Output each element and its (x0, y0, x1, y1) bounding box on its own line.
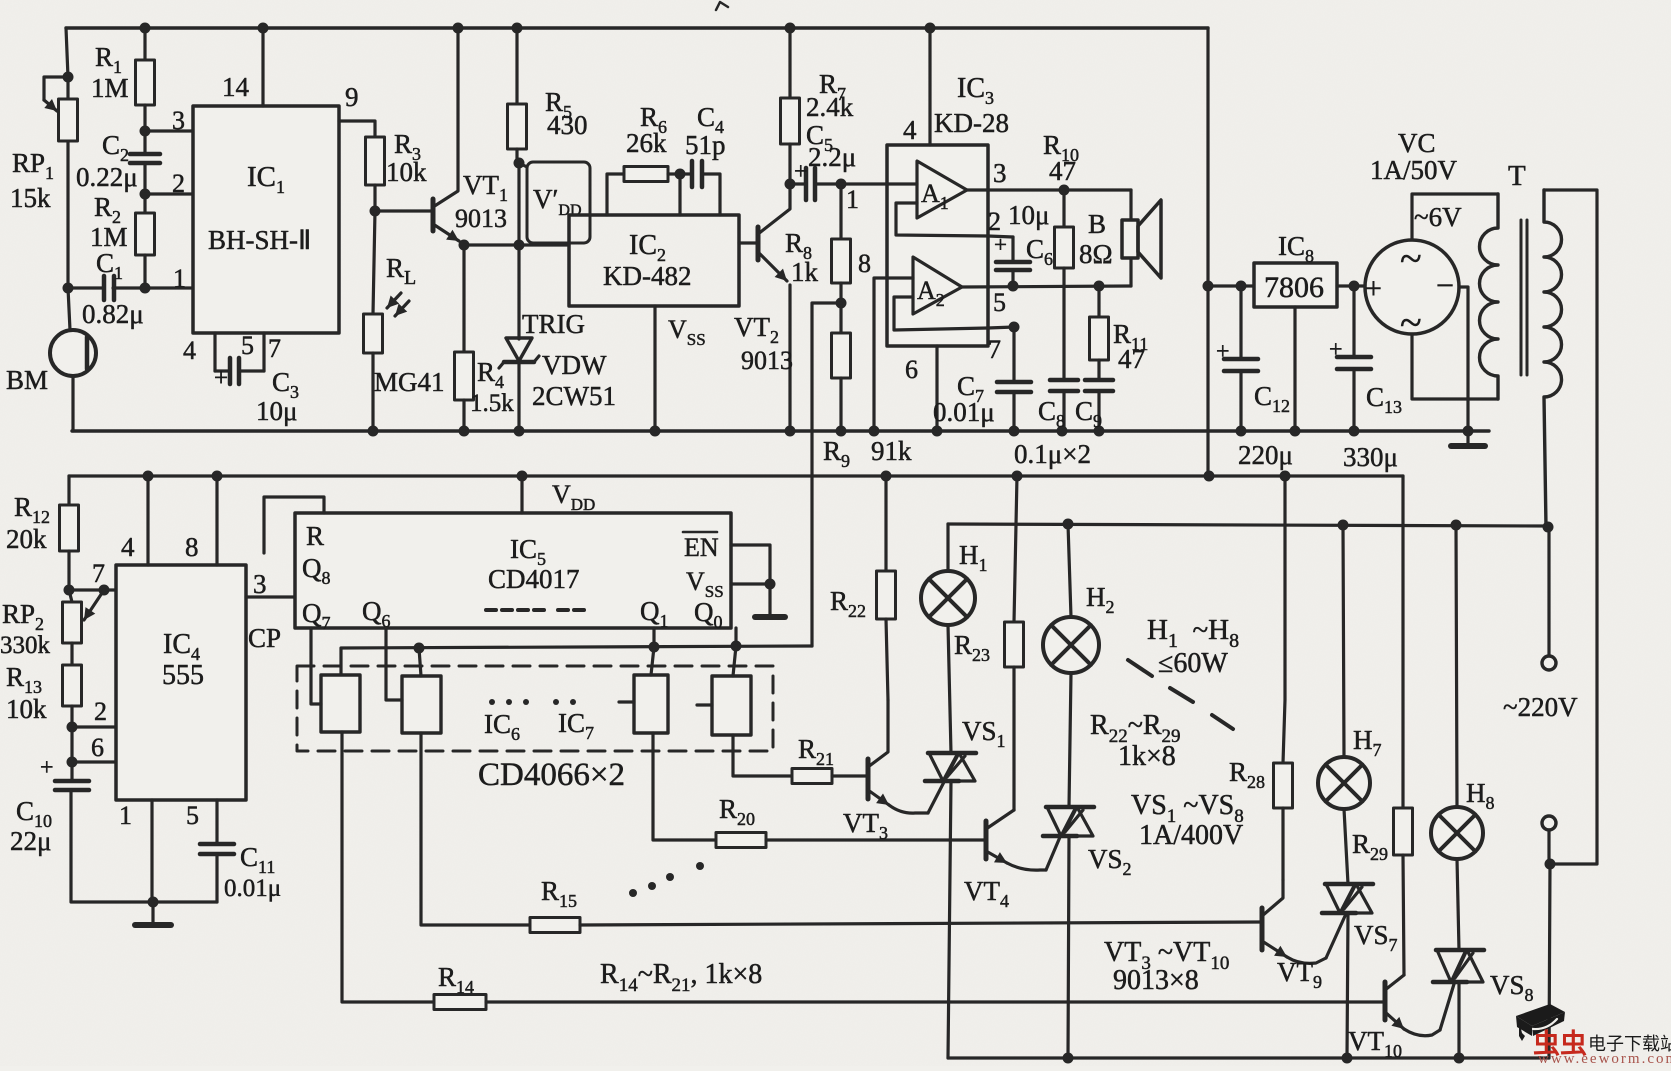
transformer T primary winding (1544, 190, 1562, 527)
svg-text:+: + (1216, 339, 1230, 365)
svg-text:6: 6 (905, 355, 918, 384)
wire: A2 feedback loop and pin 7 (894, 297, 1020, 364)
svg-text:+: + (994, 232, 1007, 257)
wire: IC2 Vss pin (655, 306, 706, 431)
capacitor C9 (1075, 380, 1113, 431)
svg-text:430: 430 (547, 110, 588, 140)
wire: A1 feedback loop and pin 2 (896, 203, 1013, 237)
svg-text:MG41: MG41 (374, 367, 445, 397)
resistor R6 (607, 102, 680, 215)
svg-text:6: 6 (91, 733, 104, 762)
regulator IC8 7806 (1254, 231, 1337, 431)
svg-text:7: 7 (988, 335, 1001, 364)
svg-text:4: 4 (903, 115, 917, 145)
svg-text:+: + (1365, 272, 1382, 305)
node pin2 of IC4 (67, 722, 78, 733)
wire: SW1 output to R14 (342, 732, 434, 1002)
svg-text:5: 5 (241, 331, 254, 360)
svg-text:2CW51: 2CW51 (532, 381, 616, 411)
svg-text:3: 3 (253, 569, 267, 599)
svg-text:22μ: 22μ (10, 826, 51, 856)
wire: pin 6 of IC4 (72, 727, 116, 762)
wire: ground bus (72, 429, 1489, 432)
wire: mains loop top edge (948, 519, 1554, 533)
zener diode VDW 2CW51 (499, 309, 616, 411)
node pin1 junction (140, 264, 187, 294)
svg-text:≤60W: ≤60W (1158, 648, 1228, 679)
svg-text:26k: 26k (626, 128, 667, 158)
wire: SW4 output to R21 (733, 735, 792, 776)
svg-text:8: 8 (858, 249, 871, 278)
resistor R20 (716, 794, 986, 848)
capacitor C10 22u (10, 755, 217, 902)
svg-text:9013×8: 9013×8 (1113, 965, 1199, 996)
resistor R28 (1229, 476, 1293, 880)
transistor VT2 9013 (734, 184, 793, 431)
capacitor C7 (933, 327, 1031, 431)
wire: low-voltage supply bus VDD2 (69, 474, 1403, 477)
wire: SW4 control stub (697, 703, 712, 706)
wire: IC5 reset pin hook (264, 497, 324, 553)
node pin3 junction (140, 126, 151, 137)
wire: bridge top to transformer secondary (1412, 194, 1498, 240)
capacitor C6 (988, 200, 1053, 292)
resistor R13 (6, 643, 82, 727)
svg-text:~220V: ~220V (1503, 692, 1578, 722)
wire: pin 14 of IC1 (222, 28, 263, 106)
resistor R29 (1352, 476, 1413, 975)
node R3 bottom (370, 206, 381, 217)
svg-text:BH-SH-Ⅱ: BH-SH-Ⅱ (208, 225, 311, 255)
svg-text:1k×8: 1k×8 (1118, 741, 1176, 772)
svg-text:8: 8 (185, 532, 199, 562)
net label VDD tag box (519, 162, 590, 243)
svg-text:R: R (306, 521, 324, 551)
svg-text:~: ~ (1400, 236, 1422, 281)
svg-text:51p: 51p (685, 130, 726, 160)
svg-text:+: + (214, 365, 228, 392)
scan mark top edge (716, 2, 728, 10)
resistor R7 (781, 28, 854, 184)
wire: Q0 output stub (734, 628, 737, 646)
node R12/RP2 pin7 (64, 585, 110, 596)
svg-text:CD4017: CD4017 (488, 564, 580, 594)
node R5 bottom VDD (514, 158, 525, 169)
dashes inside IC5 (486, 608, 584, 612)
svg-text:4: 4 (121, 532, 135, 562)
wire: IC5 EN pin (731, 545, 770, 584)
wire: primary top to mains right leg (1544, 190, 1597, 864)
svg-text:10k: 10k (386, 157, 427, 187)
wire: VT1 emitter node (461, 243, 569, 245)
bridge rectifier VC (1365, 128, 1459, 345)
microphone BM (6, 330, 96, 431)
svg-text:20k: 20k (6, 524, 47, 554)
svg-text:10μ: 10μ (256, 396, 297, 426)
node VT1 emitter (459, 240, 470, 251)
wire: pin 6 of IC3 to ground (905, 346, 937, 431)
svg-text:0.01μ: 0.01μ (224, 875, 281, 902)
svg-text:CP: CP (248, 623, 281, 653)
wire: Q6 to SW2 control (386, 628, 402, 700)
transistor VT1 9013 (433, 28, 508, 241)
resistor R8 (785, 184, 851, 303)
wire: pin 2 of IC4 (72, 697, 116, 727)
resistor R1 (91, 28, 155, 131)
node R6/C4 (675, 169, 686, 180)
op-amp IC2 KD-482 box (569, 215, 739, 306)
transistor VT9 (1262, 880, 1345, 992)
analog switch SW4 (712, 646, 751, 735)
wire: pin 2 of IC1 (145, 169, 193, 198)
svg-text:1A/400V: 1A/400V (1139, 820, 1243, 851)
wire: IC5 Vdd tap (522, 476, 595, 514)
wire: A2 input from pin 8 (887, 276, 913, 279)
capacitor C1 (68, 248, 193, 329)
triac VS2 (1043, 673, 1132, 1058)
ground symbol at bridge (1451, 431, 1485, 446)
dashed annotation leader (1128, 660, 1233, 729)
resistor R23 (954, 476, 1024, 810)
op-amp A1 (917, 161, 967, 218)
lamp H2 (1043, 524, 1115, 673)
svg-text:1.5k: 1.5k (470, 390, 514, 417)
capacitor C2 (76, 130, 160, 194)
transformer T core (1508, 160, 1527, 375)
svg-text:330μ: 330μ (1343, 442, 1398, 472)
svg-text:1: 1 (846, 185, 859, 214)
watermark eeworm (1516, 1004, 1671, 1067)
svg-text:8Ω: 8Ω (1079, 239, 1113, 269)
svg-text:+: + (40, 755, 54, 781)
dotted continuation marks (629, 862, 704, 897)
resistor R4 (455, 245, 515, 431)
svg-text:0.82μ: 0.82μ (82, 299, 144, 329)
wire: SW3 output to R20 (653, 733, 716, 840)
svg-text:10μ: 10μ (1008, 200, 1049, 230)
svg-text:5: 5 (186, 801, 199, 830)
wire: top supply bus (66, 26, 1208, 29)
svg-text:7806: 7806 (1264, 271, 1324, 304)
resistor R12 (6, 476, 79, 590)
label VT3-VT10 9013x8 (1104, 937, 1229, 996)
resistor R22 (830, 476, 896, 700)
svg-text:10k: 10k (6, 694, 47, 724)
analog switch box IC6 IC7 CD4066 dashed (297, 666, 773, 793)
svg-text:7: 7 (268, 334, 281, 363)
potentiometer RP1 (10, 77, 78, 213)
svg-text:T: T (1508, 160, 1526, 192)
speaker B 8ohm (1079, 190, 1161, 286)
wire: Q7 to SW1 control (311, 628, 321, 704)
svg-text:B: B (1088, 209, 1106, 239)
potentiometer RP2 330k (0, 590, 104, 659)
svg-text:www.eeworm.com: www.eeworm.com (1538, 1051, 1671, 1066)
svg-text:−: − (1436, 267, 1454, 303)
wire: pin 3 of IC4 to CP of IC5 (246, 569, 295, 653)
node C5 left (785, 179, 796, 190)
node: ground bus junctions (368, 426, 1474, 437)
capacitor C13 330u (1329, 281, 1402, 473)
svg-text:3: 3 (993, 158, 1007, 188)
svg-text:3: 3 (172, 106, 185, 135)
svg-text:9013: 9013 (741, 346, 793, 375)
svg-text:0.01μ: 0.01μ (933, 397, 995, 427)
wire: pin 7 of IC4 (69, 559, 116, 590)
svg-text:555: 555 (162, 660, 204, 691)
svg-text:~6V: ~6V (1414, 202, 1462, 232)
node pin2 junction (140, 189, 151, 200)
svg-text:14: 14 (222, 72, 250, 102)
node: top bus junctions (140, 23, 936, 34)
wire: pin 4 of IC3 (903, 28, 930, 145)
resistor R21 (792, 734, 868, 784)
wire: pin 4 of IC4 (121, 476, 148, 565)
label VS1-VS8 1A/400V (1131, 790, 1244, 851)
capacitor C5 (790, 120, 856, 200)
analog switch SW3 (634, 647, 668, 733)
svg-text:4: 4 (183, 336, 196, 365)
node R8/R9 (836, 298, 847, 309)
label R22-R29 1k x8 (1090, 710, 1181, 772)
svg-text:+: + (1329, 337, 1343, 363)
ground symbol at IC4 (135, 902, 171, 925)
svg-text:1: 1 (173, 264, 186, 293)
svg-text:330k: 330k (0, 632, 51, 659)
wire: bridge minus to ground (1459, 287, 1468, 431)
svg-text:EN: EN (684, 533, 719, 562)
svg-text:1A/50V: 1A/50V (1370, 155, 1458, 185)
svg-text:15k: 15k (10, 183, 51, 213)
transformer T secondary winding (1480, 194, 1499, 399)
wire: regulator output (1337, 284, 1365, 287)
resistor R2 (90, 192, 155, 288)
triac VS8 (1433, 859, 1534, 1058)
op-amp IC3 KD-28 box (887, 73, 1009, 346)
triac VS7 (1322, 809, 1398, 1058)
lamp H7 (1318, 525, 1382, 809)
svg-text:KD-482: KD-482 (603, 261, 692, 291)
wire: A2 output pin 5 (962, 286, 1131, 317)
svg-text:1k: 1k (791, 257, 819, 287)
wire: raw DC rail from top bus to regulator input (1203, 28, 1255, 476)
wire: node to A1 input (841, 182, 917, 185)
analog switch SW1 (321, 675, 360, 732)
svg-text:BM: BM (6, 365, 48, 395)
capacitor C8 (1038, 380, 1078, 431)
wire: SW3 control stub (619, 700, 634, 703)
wire: mains loop bottom edge (948, 1053, 1549, 1064)
svg-text:2.2μ: 2.2μ (808, 142, 856, 172)
wire: pin 9 of IC1 (339, 82, 375, 137)
wire: VDD column to zener (514, 163, 525, 431)
wire: pin 1 of IC4 (119, 800, 152, 902)
wire: A1 output pin 3 (967, 158, 1131, 190)
svg-text:2: 2 (94, 697, 107, 726)
svg-text:TRIG: TRIG (522, 309, 585, 339)
transistor VT4 (964, 810, 1060, 911)
svg-text:0.1μ×2: 0.1μ×2 (1014, 439, 1091, 469)
svg-text:220μ: 220μ (1238, 440, 1293, 470)
resistor R15 (530, 876, 1262, 933)
resistor R14 (434, 962, 1384, 1010)
op-amp A2 (913, 257, 962, 314)
wire: pin 3 of IC1 (145, 106, 193, 135)
wire: left rail (63, 28, 74, 330)
node ground of IC4 (148, 897, 159, 908)
wire: mains loop right edge with 220V terminals (1542, 527, 1556, 1058)
svg-text:1M: 1M (91, 73, 129, 103)
capacitor C3 on pins 4/5/7 (183, 331, 299, 426)
resistor R5 (508, 28, 588, 163)
svg-text:VC: VC (1398, 128, 1436, 158)
analog switch SW2 (402, 648, 441, 733)
svg-text:1: 1 (119, 801, 132, 830)
node: VDD2 bus junctions (143, 471, 1291, 482)
svg-text:5: 5 (993, 288, 1006, 317)
label H1-H8 60W (1147, 614, 1239, 679)
wire: bridge bottom to secondary bottom (1412, 334, 1498, 399)
wire: SW2 output to R15 (421, 733, 530, 925)
resistor R9 91k (823, 303, 912, 471)
wire: Q1 output stub (652, 628, 655, 647)
lamp H1 (921, 524, 988, 625)
svg-text:CD4066×2: CD4066×2 (478, 757, 625, 793)
wire: IC3 pin 8 to ground (858, 249, 887, 431)
svg-text:47: 47 (1049, 156, 1076, 186)
photoresistor RL MG41 (364, 211, 445, 431)
counter IC5 CD4017 box (295, 513, 731, 633)
capacitor C12 220u (1216, 281, 1293, 471)
dots inside CD4066 box (489, 699, 576, 705)
transistor VT3 (843, 700, 944, 843)
svg-text:KD-28: KD-28 (934, 108, 1009, 138)
wire: R3 to VT1 base (375, 209, 433, 212)
capacitor C4 (680, 102, 726, 215)
svg-text:+: + (794, 159, 808, 185)
wire: pin 8 of IC4 (185, 476, 217, 565)
resistor R3 (366, 129, 428, 211)
node: audio line junctions (414, 641, 742, 654)
resistor R10 (1043, 130, 1079, 380)
svg-text:9: 9 (345, 82, 359, 112)
svg-text:9013: 9013 (455, 204, 507, 233)
capacitor C11 on pin 5 (186, 800, 281, 902)
transistor VT10 (1348, 975, 1454, 1061)
resistor R11 (1090, 281, 1149, 381)
node pin6 of IC4 (67, 757, 78, 768)
svg-text:2.4k: 2.4k (806, 92, 854, 122)
timer IC4 555 box (116, 565, 246, 800)
svg-text:47: 47 (1118, 344, 1145, 374)
node 1 input of IC3 (836, 179, 860, 215)
svg-text:0.22μ: 0.22μ (76, 162, 138, 192)
lamp H8 (1431, 525, 1495, 859)
svg-text:2: 2 (172, 169, 185, 198)
wire: audio feed from node down to switches (812, 303, 841, 646)
wire: audio line from switches (341, 646, 812, 675)
svg-text:VDW: VDW (542, 350, 607, 380)
svg-text:91k: 91k (871, 436, 912, 466)
svg-text:7: 7 (92, 559, 105, 588)
triac VS1 (925, 625, 1006, 1058)
op-amp IC1 BH-SH-II box (193, 106, 339, 333)
wire: IC5 VSS pin to ground (731, 579, 785, 618)
